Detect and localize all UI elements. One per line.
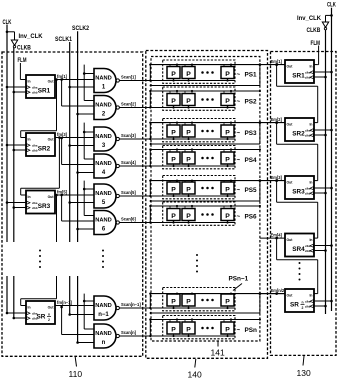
svg-text:PSn: PSn [245, 327, 258, 334]
pin pixel top-right [176, 150, 178, 153]
nand gate NAND 1 [94, 69, 116, 93]
pin pixel bottom [173, 164, 175, 166]
pin pixel top-left [169, 123, 171, 125]
svg-text:In: In [309, 181, 312, 185]
wire SCLK1 to NAND 1 [68, 86, 71, 89]
pin pixel top-right [191, 65, 193, 67]
shift register right SR2 [285, 118, 314, 141]
pin pixel top-right [230, 65, 232, 67]
wire rail row 2 [151, 90, 260, 92]
pixel P (row 5, col 1) [167, 182, 180, 194]
pin pixel bottom [227, 334, 229, 336]
svg-text:Inv_CLK: Inv_CLK [297, 16, 322, 22]
pin pixel bottom [173, 334, 175, 336]
wire SCLK1 bus lower [69, 276, 71, 315]
wire Em descent pair 2 [83, 123, 85, 159]
pin pixel top-right [230, 150, 232, 153]
pin pixel top-left [184, 181, 186, 182]
wire In pin right SR2 [314, 122, 318, 124]
label 140 [195, 359, 196, 368]
wire SCLK1 to NAND 5 [68, 201, 71, 204]
svg-text:SR2: SR2 [292, 131, 305, 138]
wire SCLK2 to NAND n [76, 341, 79, 344]
svg-text:P: P [171, 157, 176, 164]
svg-text:110: 110 [69, 369, 83, 379]
wire emission rail row 7 (from right SR) [151, 293, 285, 295]
svg-text:Scan[3]: Scan[3] [121, 133, 136, 138]
pin pixel top-left [169, 91, 171, 94]
shift register right SRn/2 [285, 289, 314, 312]
nand gate NAND 6 [94, 211, 116, 235]
svg-text:Out: Out [287, 65, 294, 69]
wire scan riser row 8 [149, 320, 151, 337]
junction CLKB to SR1 [13, 91, 16, 94]
block 130 emission driver dashed box [271, 52, 337, 356]
pin pixel bottom [188, 306, 190, 308]
svg-text:In: In [28, 138, 31, 142]
svg-text:In: In [309, 123, 312, 127]
pin pixel bottom [227, 106, 229, 108]
pixel P (row 4, col 2) [182, 152, 195, 164]
wire to NAND5 top input [84, 188, 94, 190]
wire SR3 Out (fm) [55, 194, 94, 196]
wire scan output Scan[6] [119, 222, 235, 224]
svg-text:SR2: SR2 [38, 146, 51, 153]
ellipsis panel column [196, 254, 198, 256]
pin pixel top-right [176, 320, 178, 323]
svg-text:2: 2 [302, 306, 304, 310]
wire clk pins right SR1 [314, 71, 332, 73]
wire In pin right SRn/2 [314, 293, 318, 295]
shift register left SRn/2 [26, 301, 55, 324]
pin pixel top-left [223, 91, 225, 94]
wire scan riser row 3 [149, 123, 151, 139]
svg-text:n: n [48, 313, 50, 317]
svg-text:P: P [225, 71, 230, 78]
pin pixel top-right [191, 293, 193, 295]
pin pixel top-left [223, 65, 225, 67]
wire to NAND4 top input [84, 158, 94, 160]
wire SCLK1 to NAND 3 [68, 144, 71, 147]
svg-text:CLKB: CLKB [17, 46, 31, 52]
pixel P (row 8, col 3) [221, 322, 234, 334]
pixel P (row 4, col 3) [221, 152, 234, 164]
pixel P (row 3, col 3) [221, 125, 234, 137]
pin pixel top-left [169, 150, 171, 153]
wire scan output Scan[2] [119, 107, 235, 109]
wire In pin right SR4 [314, 237, 318, 239]
svg-text:Out: Out [287, 294, 294, 298]
pin pixel top-left [169, 206, 171, 209]
ellipsis left SR column [39, 250, 41, 252]
wire scan output Scan[n] [119, 335, 235, 337]
pixel P (row 6, col 1) [167, 209, 180, 221]
wire SR2 Out (fm) [55, 137, 94, 139]
pixel P (row 7, col 2) [182, 294, 195, 306]
wire scan riser row 4 [149, 150, 151, 167]
svg-text:~: ~ [237, 130, 241, 137]
svg-text:140: 140 [188, 370, 202, 380]
junction CLK to inverter right [330, 14, 333, 17]
wire Em return corridor row 1 [259, 65, 261, 86]
pin pixel top-right [176, 65, 178, 67]
pixel row PS2 dashed box [163, 87, 235, 110]
pin pixel top-right [176, 91, 178, 94]
nand gate NAND 3 [94, 127, 116, 151]
wire SCLK2 to NAND 4 [76, 171, 79, 174]
svg-text:In: In [309, 238, 312, 242]
pin pixel top-left [223, 181, 225, 182]
wire SCLK2 to NAND 6 [76, 228, 79, 231]
pixel P (row 7, col 1) [167, 294, 180, 306]
pixel P (row 6, col 2) [182, 209, 195, 221]
svg-text:P: P [225, 187, 230, 194]
pin pixel top-right [176, 181, 178, 182]
pixel P (row 5, col 2) [182, 182, 195, 194]
junction CLKB to SRn/2 [13, 317, 16, 320]
pin pixel top-right [191, 123, 193, 125]
wire CLK branch to inverter [7, 31, 15, 33]
svg-text:NAND: NAND [95, 303, 111, 309]
svg-text:SR1: SR1 [292, 73, 305, 80]
pin pixel top-right [230, 320, 232, 323]
pin pixel bottom [188, 137, 190, 139]
svg-text:PS5: PS5 [245, 187, 258, 194]
pin pixel top-right [176, 123, 178, 125]
svg-text:Out: Out [287, 181, 294, 185]
wire scan riser row 2 [149, 91, 151, 108]
shift register left SR1 [26, 75, 55, 98]
pin pixel top-left [223, 123, 225, 125]
svg-text:Scan[n]: Scan[n] [121, 330, 137, 335]
svg-text:Em[4]: Em[4] [271, 232, 283, 237]
pixel P (row 8, col 2) [182, 322, 195, 334]
pin pixel bottom [227, 79, 229, 81]
wire emission rail row 3 (from right SR) [151, 122, 285, 124]
nand gate NAND n−1 [94, 296, 116, 320]
junction CLKB to SR3 [13, 206, 16, 209]
wire Em return corridor row 5 [259, 181, 261, 201]
pin pixel bottom [227, 137, 229, 139]
svg-text:SR: SR [37, 314, 46, 321]
pin pixel bottom [227, 221, 229, 223]
svg-text:NAND: NAND [95, 103, 111, 109]
svg-text:~: ~ [237, 327, 241, 334]
pin pixel top-left [169, 65, 171, 67]
pin pixel bottom [188, 194, 190, 196]
wire cascade SR2 to SR3 (left) [58, 136, 61, 139]
svg-text:Out: Out [48, 138, 55, 142]
junction CLK to inverter [6, 31, 9, 34]
wire cascade SR3 to SRn/2 (left) [55, 194, 58, 197]
svg-text:PS4: PS4 [245, 157, 258, 164]
wire scan output Scan[3] [119, 138, 235, 140]
wire to NAND2 top input [84, 100, 94, 102]
svg-text:CLKB: CLKB [307, 28, 321, 34]
svg-text:~: ~ [237, 72, 241, 79]
pin pixel top-right [191, 181, 193, 182]
wire SCLK2 bus upper [77, 31, 79, 242]
nand gate NAND n [94, 324, 116, 348]
svg-text:FLM: FLM [18, 58, 27, 64]
ellipsis NAND column [102, 250, 104, 252]
wire scan output Scan[4] [119, 165, 235, 167]
wire to NAND1 top input [84, 73, 94, 75]
wire scan output Scan[5] [119, 195, 235, 197]
pixel P (row 8, col 1) [167, 322, 180, 334]
wire Em[4] output stub [260, 237, 285, 239]
svg-text:In: In [28, 195, 31, 199]
pin pixel bottom [173, 106, 175, 108]
wire emission rail row 5 (from right SR) [151, 180, 285, 182]
wire Em descent pair 4 [83, 294, 85, 329]
shift register left SR2 [26, 133, 55, 156]
svg-text:P: P [171, 130, 176, 137]
wire rail row 8 [151, 319, 260, 321]
junction CLKB to SR2 [13, 149, 16, 152]
wire CLK bus left upper [6, 25, 8, 243]
pixel P (row 2, col 3) [221, 94, 234, 106]
nand gate NAND 4 [94, 154, 116, 178]
svg-text:P: P [171, 327, 176, 334]
wire Em return corridor row 7 [259, 294, 261, 313]
pin pixel top-left [184, 150, 186, 153]
pin pixel top-left [223, 150, 225, 153]
wire SCLK2 bus lower [77, 276, 79, 343]
svg-text:NAND: NAND [95, 218, 111, 224]
wire fm branch pair 4 [60, 306, 63, 309]
pixel P (row 1, col 2) [182, 67, 195, 79]
inverter left (CLK to CLKB) [11, 40, 17, 45]
wire CLKB bus left upper [13, 48, 15, 242]
wire scan riser row 6 [149, 206, 151, 223]
svg-text:~: ~ [237, 157, 241, 164]
nand gate NAND 5 [94, 184, 116, 208]
wire Em return corridor row 3 [259, 123, 261, 144]
pin pixel top-right [230, 123, 232, 125]
wire to NAND3 top input [84, 131, 94, 133]
svg-text:P: P [171, 213, 176, 220]
wire fm branch pair 2 [60, 137, 63, 140]
wire Em descent pair 1 [83, 65, 85, 101]
svg-text:P: P [186, 299, 191, 306]
svg-text:NAND: NAND [95, 134, 111, 140]
pixel P (row 5, col 3) [221, 182, 234, 194]
svg-text:In: In [309, 65, 312, 69]
wire CLKB bus right [325, 30, 327, 314]
wire clk pins SR3 [7, 202, 26, 204]
pin pixel top-right [191, 320, 193, 323]
pin pixel bottom [188, 164, 190, 166]
svg-text:Em[1]: Em[1] [271, 59, 283, 64]
wire SCLK2 to NAND 2 [76, 113, 79, 116]
inverter right (CLK to CLKB) [322, 22, 328, 27]
ellipsis dots row 7 [201, 299, 204, 302]
pixel P (row 6, col 3) [221, 209, 234, 221]
wire CLK bus left lower [6, 276, 8, 314]
pixel row PS5 dashed box [163, 176, 235, 199]
wire clk pins SRn/2 [7, 312, 26, 314]
wire SCLK1 to NAND n−1 [68, 313, 71, 316]
wire In pin right SR1 [314, 64, 318, 66]
wire FLM junction right [317, 64, 320, 66]
ellipsis right SR column [299, 262, 301, 264]
svg-text:P: P [171, 71, 176, 78]
wire cascade right SR3 to next [275, 179, 278, 182]
svg-text:In: In [309, 294, 312, 298]
pin pixel top-right [191, 206, 193, 209]
pin pixel bottom [188, 221, 190, 223]
wire cascade right SR1 to next [275, 63, 278, 66]
svg-text:P: P [225, 327, 230, 334]
wire clk pins right SR3 [314, 187, 332, 189]
svg-text:Out: Out [48, 80, 55, 84]
svg-text:Out: Out [48, 195, 55, 199]
ellipsis dots row 2 [201, 98, 204, 101]
junction CLK to SR2 [6, 144, 9, 147]
svg-text:Scan[2]: Scan[2] [121, 102, 136, 107]
pin pixel bottom [173, 194, 175, 196]
wire emission rail row 1 (from right SR) [151, 64, 285, 66]
svg-text:In: In [28, 80, 31, 84]
ellipsis dots row 4 [201, 157, 204, 160]
wire clk pins right SR2 [314, 129, 332, 131]
svg-text:Scan[n−1]: Scan[n−1] [121, 302, 141, 307]
svg-text:NAND: NAND [95, 331, 111, 337]
wire rail row 6 [151, 205, 260, 207]
wire clk pins SR1 [7, 86, 26, 88]
wire rail row 4 [151, 149, 260, 151]
svg-text:P: P [186, 327, 191, 334]
pin pixel bottom [227, 306, 229, 308]
pin pixel top-right [176, 293, 178, 295]
svg-text:P: P [186, 213, 191, 220]
pixel P (row 2, col 1) [167, 94, 180, 106]
svg-text:SR3: SR3 [38, 203, 51, 210]
wire cascade right SR4 to next [275, 237, 278, 240]
wire SR1 Out (fm) [55, 79, 94, 81]
svg-text:P: P [171, 98, 176, 105]
svg-text:PS6: PS6 [245, 214, 258, 221]
pin pixel bottom [188, 106, 190, 108]
svg-text:Scan[5]: Scan[5] [121, 190, 136, 195]
svg-text:Em[n/2]: Em[n/2] [271, 288, 287, 293]
pixel row PS1 dashed box [163, 60, 235, 83]
pin pixel top-right [176, 206, 178, 209]
pixel row PS6 dashed box [163, 202, 235, 225]
junction CLK to SR3 [6, 201, 9, 204]
pin pixel bottom [173, 137, 175, 139]
pixel P (row 2, col 2) [182, 94, 195, 106]
wire clk pins right SR4 [314, 245, 332, 247]
svg-text:Em[2]: Em[2] [271, 117, 283, 122]
svg-text:P: P [225, 157, 230, 164]
svg-text:141: 141 [211, 348, 225, 358]
wire cascade right SR2 to next [275, 121, 278, 124]
block 141 pixel area dashed box [151, 57, 260, 342]
label 110 [75, 357, 76, 367]
svg-text:SR3: SR3 [292, 189, 305, 196]
svg-text:Scan[4]: Scan[4] [121, 160, 136, 165]
svg-text:PS1: PS1 [245, 72, 258, 79]
pin pixel top-left [184, 65, 186, 67]
wire scan riser row 7 [149, 294, 151, 308]
pixel P (row 7, col 3) [221, 294, 234, 306]
svg-text:fm[5]: fm[5] [57, 189, 68, 194]
pixel P (row 3, col 2) [182, 125, 195, 137]
svg-text:P: P [186, 187, 191, 194]
ellipsis dots row 1 [201, 71, 204, 74]
pin pixel top-left [184, 320, 186, 323]
pin pixel bottom [227, 164, 229, 166]
wire scan output Scan[1] [119, 80, 235, 82]
svg-text:PS3: PS3 [245, 130, 258, 137]
svg-text:~: ~ [237, 187, 241, 194]
pin pixel top-left [169, 293, 171, 295]
pixel row PSn dashed box [163, 316, 235, 339]
svg-text:CLK: CLK [327, 2, 336, 9]
ellipsis dots row 3 [201, 130, 204, 133]
pixel P (row 3, col 1) [167, 125, 180, 137]
pin pixel top-left [223, 293, 225, 295]
nand gate NAND 2 [94, 96, 116, 120]
wire FLM to SR1 In [19, 63, 21, 80]
wire scan output Scan[n−1] [119, 307, 235, 309]
pixel row PS4 dashed box [163, 146, 235, 169]
pixel P (row 1, col 3) [221, 67, 234, 79]
wire FLM into SR1 In pin [20, 79, 26, 81]
svg-text:SR4: SR4 [292, 246, 305, 253]
wire to NAND8 top input [84, 328, 94, 330]
shift register right SR4 [285, 234, 314, 257]
label 130 [303, 356, 304, 366]
wire to NAND6 top input [84, 215, 94, 217]
wire Em descent pair 3 [83, 181, 85, 216]
pin pixel top-left [184, 206, 186, 209]
svg-text:P: P [186, 157, 191, 164]
wire clk pins SR2 [7, 144, 26, 146]
svg-text:n−1: n−1 [98, 312, 109, 318]
pin pixel top-left [184, 91, 186, 94]
svg-text:SR: SR [290, 302, 299, 309]
svg-text:Out: Out [287, 123, 294, 127]
svg-text:In: In [28, 306, 31, 310]
svg-text:Scan[1]: Scan[1] [121, 75, 136, 80]
wire into inverter [14, 32, 16, 40]
wire clk pins right SRn/2 [314, 300, 332, 302]
shift register right SR1 [285, 60, 314, 83]
svg-text:P: P [186, 98, 191, 105]
wire SCLK1 bus upper [69, 42, 71, 242]
svg-text:Out: Out [48, 306, 55, 310]
pin pixel top-left [184, 123, 186, 125]
ellipsis dots row 8 [201, 327, 204, 330]
svg-text:NAND: NAND [95, 161, 111, 167]
svg-text:P: P [225, 130, 230, 137]
ellipsis dots row 6 [201, 213, 204, 216]
svg-text:fm[3]: fm[3] [57, 132, 68, 137]
junction CLK to SR1 [6, 86, 9, 89]
shift register left SR3 [26, 191, 55, 214]
shift register right SR3 [285, 176, 314, 199]
pin pixel top-right [230, 181, 232, 182]
svg-text:n: n [301, 301, 303, 305]
svg-text:NAND: NAND [95, 76, 111, 82]
pin pixel top-left [169, 320, 171, 323]
svg-text:SCLK2: SCLK2 [72, 26, 90, 32]
pin pixel top-right [230, 91, 232, 94]
pin pixel top-left [223, 206, 225, 209]
